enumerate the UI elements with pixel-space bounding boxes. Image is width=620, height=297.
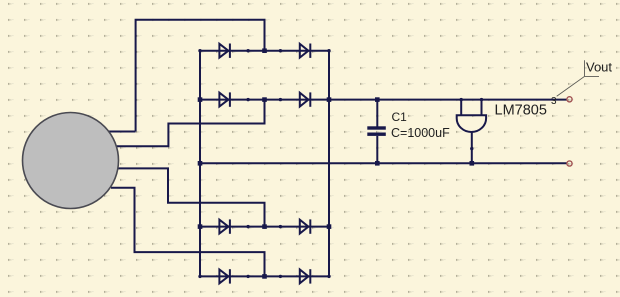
junction row1 center / phase A [262, 48, 267, 53]
junction row4 center / phase D [262, 274, 267, 279]
junction right bus row3 [327, 224, 332, 229]
wire generator lead 3 to row3 center [118, 168, 265, 226]
junction row3 center / phase C [262, 224, 267, 229]
wire right bus [328, 51, 330, 277]
junction left bus row3 [198, 224, 203, 229]
junction left bus row2 [198, 97, 203, 102]
U1 pin 1 input [460, 98, 463, 115]
port pin out- [567, 161, 572, 166]
diodes D3 D4 (row 2) [198, 92, 330, 106]
wire generator lead 4 to row4 center [111, 188, 265, 277]
svg-text:Vout: Vout [586, 60, 612, 75]
wire diode row 2 and top output rail [200, 99, 567, 101]
U1 pin 3 output [480, 98, 483, 115]
junction left bus negative rail [198, 161, 203, 166]
U1 pin 2 ground [470, 132, 473, 163]
generator M1 [23, 113, 119, 209]
junction row2 center / phase B [262, 97, 267, 102]
diodes D5 D6 (row 3) [198, 219, 330, 233]
junction C1 top [375, 97, 380, 102]
capacitor C1 [376, 100, 378, 164]
svg-text:3: 3 [551, 96, 557, 107]
wire bottom output rail [200, 162, 567, 164]
junction right bus row2 [327, 97, 332, 102]
wire generator lead 1 [105, 131, 136, 133]
junction C1 bottom [375, 161, 380, 166]
svg-text:C=1000uF: C=1000uF [391, 126, 450, 140]
wire generator lead 2 to row2 center [117, 100, 265, 147]
wire diode row 4 [200, 275, 329, 277]
diodes D1 D2 (row 1) [198, 44, 330, 58]
port pin out+ [567, 97, 572, 102]
wire top loop from generator lead 1 to row1 center [136, 20, 265, 132]
svg-text:C1: C1 [392, 110, 408, 124]
svg-text:LM7805: LM7805 [495, 103, 547, 119]
wire diode row 3 [200, 226, 329, 228]
wire left bus [199, 51, 201, 277]
wire diode row 1 [200, 50, 329, 52]
regulator U1 LM7805 package [457, 115, 486, 132]
diodes D7 D8 (row 4) [198, 269, 330, 283]
net flag Vout [557, 60, 599, 96]
junction U1 ground pin [470, 161, 475, 166]
